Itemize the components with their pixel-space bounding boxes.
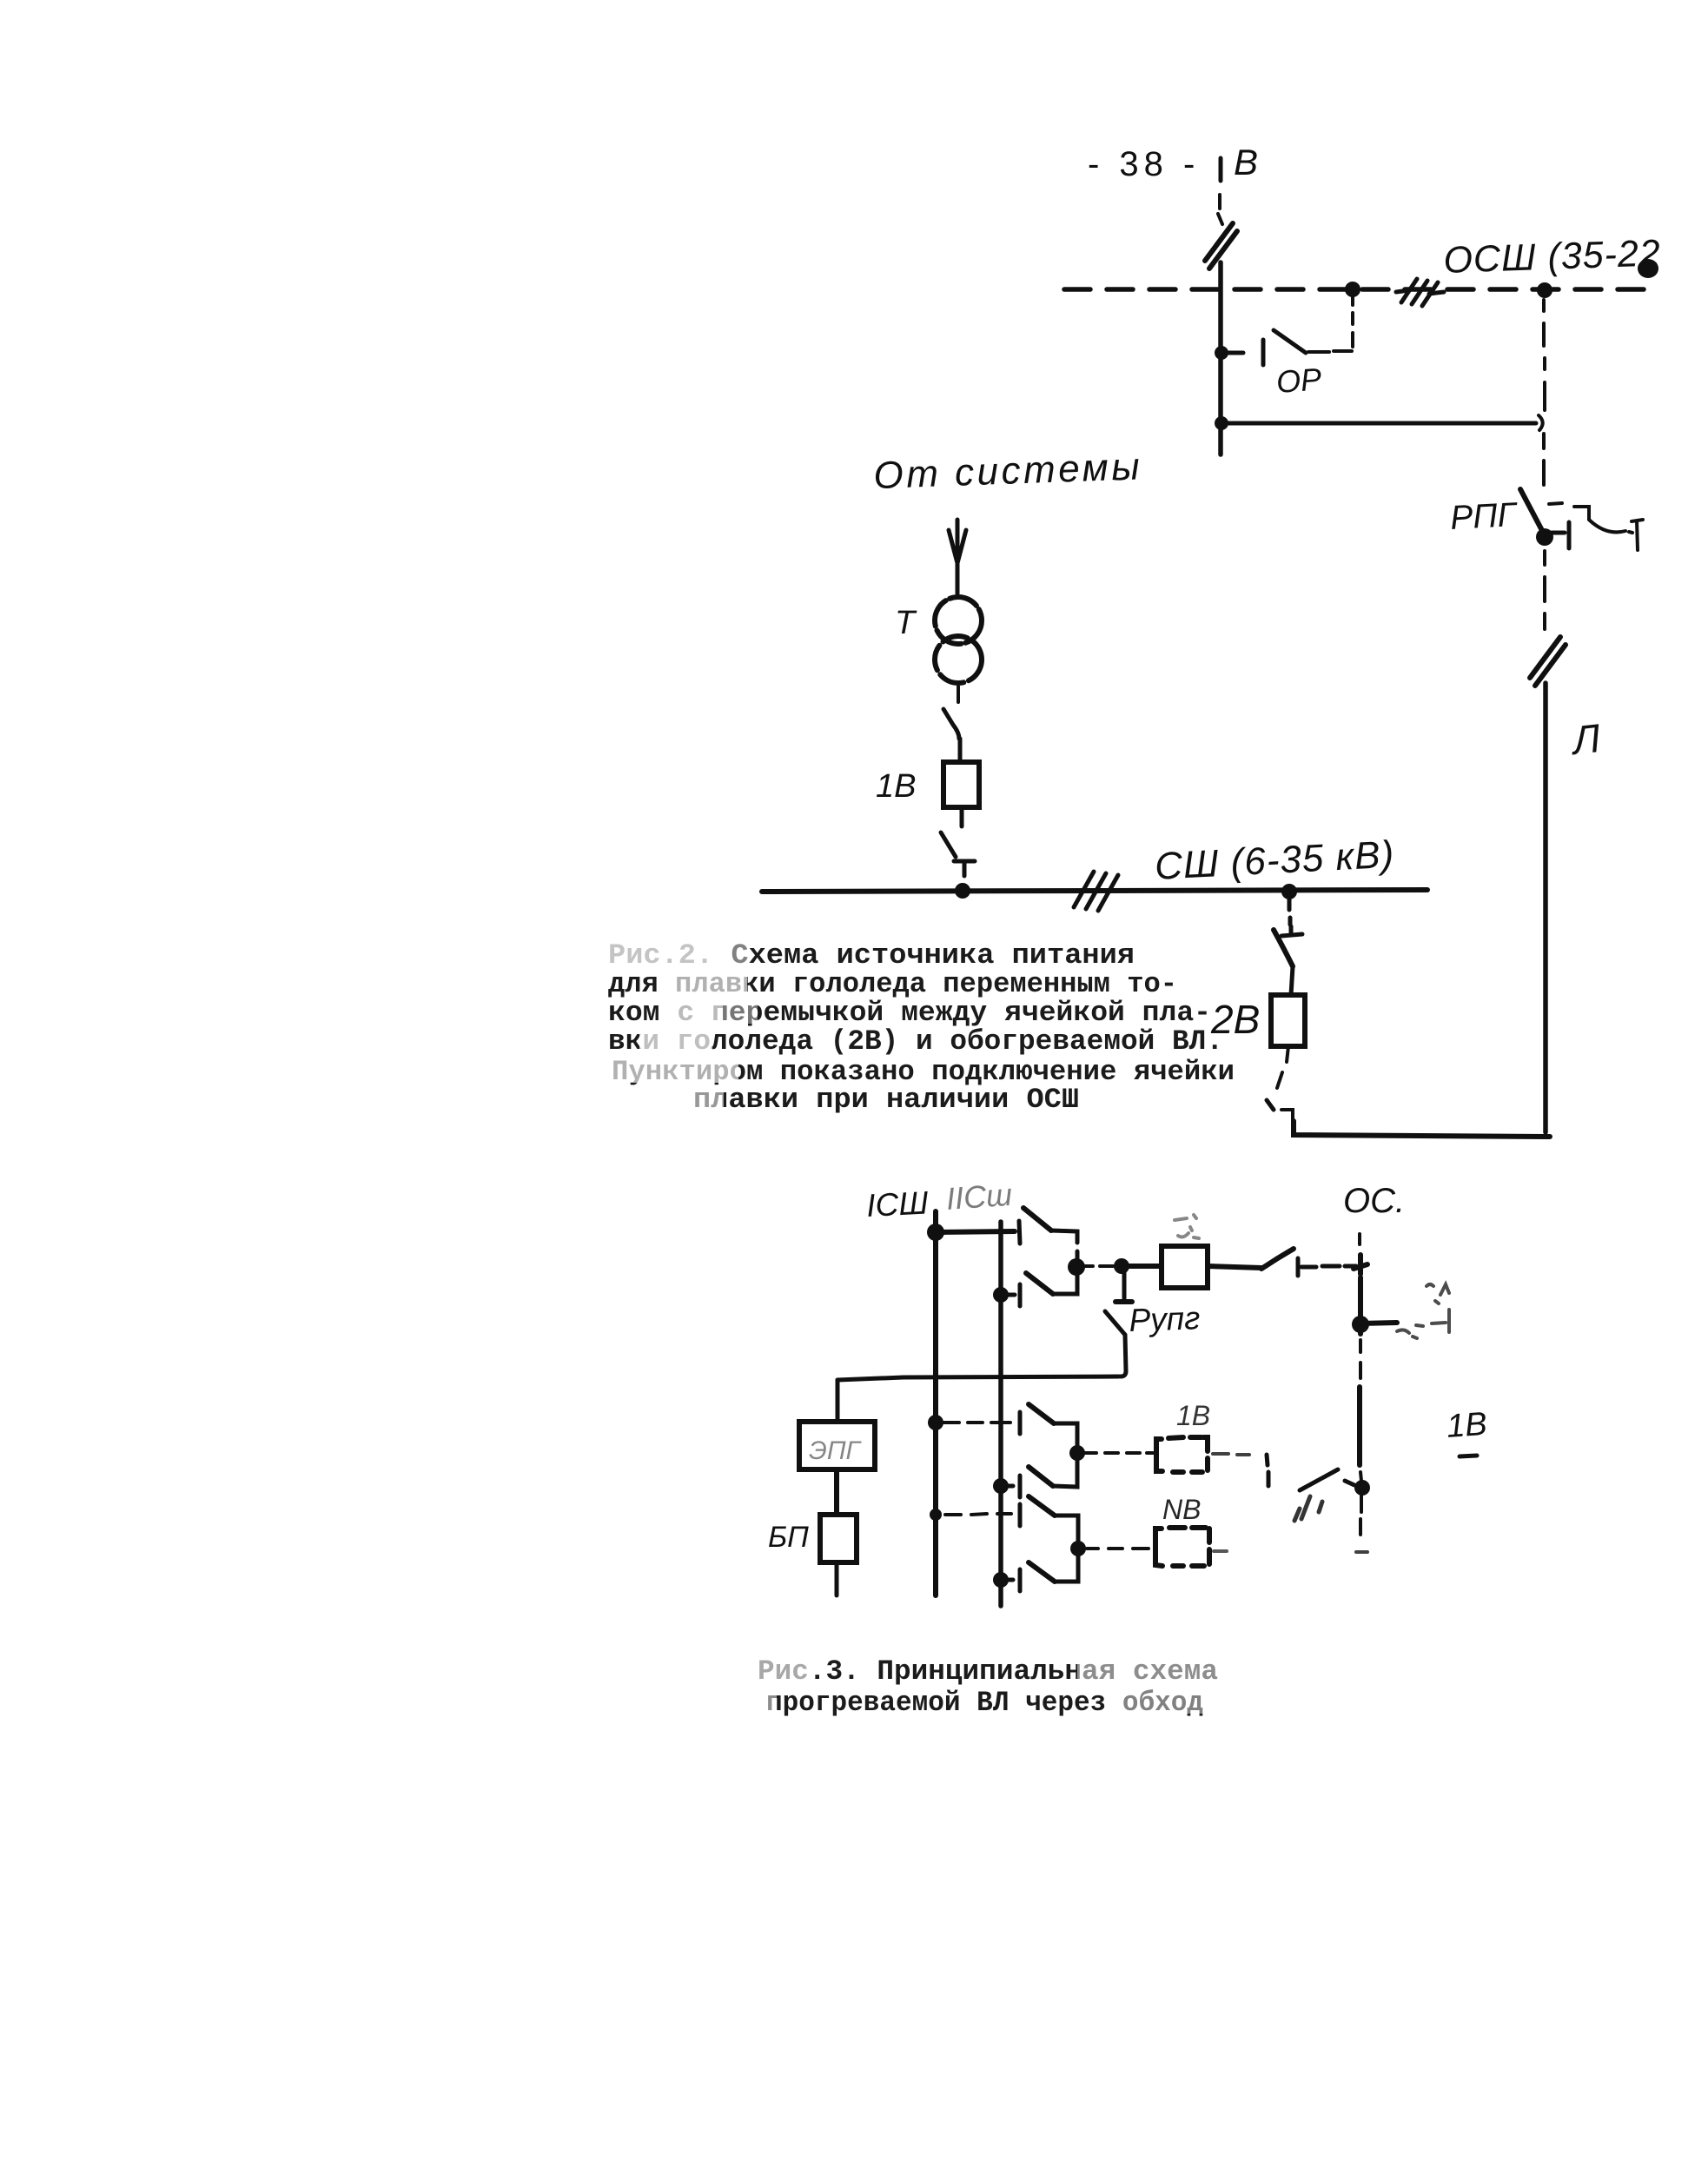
wire link corner down to EPG	[836, 1380, 840, 1422]
svg-text:ОР: ОР	[1275, 361, 1323, 400]
node junction dot RUPG tap	[1114, 1258, 1129, 1274]
block BP box	[820, 1515, 857, 1562]
wire OS line upper segment	[1358, 1277, 1363, 1334]
disconnector S1 blade	[1023, 1208, 1051, 1230]
wire hook to bottom corner	[1281, 1110, 1293, 1121]
wire bus II to contact S6	[1001, 1578, 1013, 1582]
disconnector 1L blade	[1300, 1469, 1354, 1490]
svg-text:РПГ: РПГ	[1449, 496, 1519, 537]
node junction dot bus I row NB	[930, 1509, 942, 1521]
svg-text:В: В	[1234, 142, 1258, 182]
disconnector S4 blade	[1029, 1467, 1053, 1486]
svg-text:1В: 1В	[1176, 1400, 1210, 1431]
caption 2 fade washes	[754, 1656, 1221, 1714]
fixed contact RUPG	[1115, 1299, 1132, 1304]
svg-text:1В: 1В	[876, 768, 916, 805]
node junction dot bus SSH right	[1281, 884, 1297, 899]
arrowhead feeder	[949, 530, 966, 563]
disconnector blade to OS	[1261, 1249, 1294, 1269]
disconnector S2 blade	[1026, 1273, 1053, 1294]
svg-text:IСШ: IСШ	[865, 1184, 930, 1224]
wire dashes under fuse 2B	[1277, 1046, 1288, 1088]
disconnector RPG blade	[1520, 489, 1546, 539]
wire EPG to BP	[834, 1469, 839, 1515]
wire below BP	[835, 1562, 839, 1595]
fuse 1B feeder box	[1156, 1437, 1208, 1472]
svg-text:ОСШ (35-22: ОСШ (35-22	[1443, 232, 1662, 282]
wire bus II to contact S2	[1001, 1293, 1015, 1297]
wire node B vertical main	[1218, 262, 1223, 454]
label 2G smudge	[1175, 1215, 1199, 1238]
wire S4 to column 1B	[1053, 1453, 1077, 1487]
svg-text:Л: Л	[1568, 715, 1603, 763]
node junction dot OS tap	[1352, 1316, 1369, 1333]
wire dash right of NB box	[1214, 1549, 1227, 1553]
wire OS line dashes	[1359, 1340, 1362, 1378]
wire OS tap right	[1360, 1323, 1397, 1323]
node junction dot bus II S4	[993, 1478, 1009, 1494]
node OS tee	[1354, 1255, 1367, 1274]
fuse 1B box	[943, 762, 979, 807]
node junction dot column 1B	[1069, 1445, 1085, 1461]
breaker double slash on L line	[1530, 637, 1566, 686]
wire dashed to fuse NB feeder	[1087, 1547, 1149, 1550]
wire S2 to common column	[1053, 1267, 1077, 1294]
wire OS line top dash	[1358, 1234, 1361, 1244]
svg-text:плавки при наличии ОСШ: плавки при наличии ОСШ	[693, 1084, 1079, 1116]
svg-text:IIСш: IIСш	[945, 1177, 1014, 1217]
svg-text:От системы: От системы	[873, 445, 1143, 497]
disconnector blade above fuse 2B	[1274, 930, 1293, 966]
fixed contact T of 2B switch	[1281, 926, 1302, 936]
disconnector blade to bus SSH	[941, 832, 956, 857]
wire contact to OS line	[1301, 1266, 1356, 1267]
node junction dot common column	[1068, 1258, 1085, 1276]
svg-text:NВ: NВ	[1162, 1494, 1201, 1525]
node junction dot column NB	[1070, 1541, 1086, 1556]
wire into fuse 2B	[1291, 966, 1293, 995]
wire dashed bus I to contact S3	[943, 1421, 1010, 1424]
wire dashed to fuse 1B feeder	[1085, 1451, 1153, 1455]
fixed contact 1L	[1267, 1455, 1268, 1486]
svg-text:- 38 -: - 38 -	[1088, 145, 1200, 183]
wire OS line mid segment	[1357, 1387, 1362, 1465]
wire dashed corner OR branch	[1334, 297, 1353, 351]
bus OSSH dashed 35-220	[1064, 287, 1651, 292]
earth tick end of RPG branch	[1632, 520, 1643, 550]
caption 1 fade washes	[604, 940, 758, 1111]
node junction dot OR on line B	[1215, 346, 1228, 360]
svg-text:СШ (6-35 кВ): СШ (6-35 кВ)	[1154, 833, 1395, 888]
svg-text:Т: Т	[895, 605, 917, 641]
wire RPG bracket and curve to earth tick	[1574, 507, 1632, 533]
wire stub under dot 2B branch	[1289, 892, 1290, 925]
disconnector blade below 2B	[1267, 1100, 1274, 1110]
bus I SSH vertical	[933, 1211, 938, 1595]
blob on label 0	[1638, 259, 1658, 278]
wire dashed RPG column upper	[1544, 300, 1545, 410]
wire node B vertical top dash	[1219, 158, 1223, 181]
svg-text:ОС.: ОС.	[1343, 1182, 1405, 1220]
node junction dot RPG	[1536, 528, 1553, 546]
wire RUPG down to long link	[1121, 1335, 1126, 1376]
wire OS dash	[1360, 1472, 1361, 1481]
disconnector S5 blade	[1029, 1496, 1055, 1516]
node junction dot OS 1L	[1354, 1480, 1370, 1496]
block EPG box	[799, 1422, 875, 1469]
wire bottom loop horizontal	[1294, 1121, 1550, 1137]
disconnector RUPG blade	[1105, 1311, 1125, 1335]
wire horizontal link to RPG column	[1221, 421, 1536, 426]
connector open circle at RPG column	[1539, 415, 1543, 430]
wire OR to dashed corner	[1308, 350, 1329, 354]
line break mark on bus OSSH	[1396, 279, 1444, 306]
fixed contact S1	[1019, 1221, 1020, 1244]
wire S1 to common column	[1051, 1230, 1077, 1262]
wire bus II to contact S4	[1001, 1484, 1013, 1489]
wire OR stub	[1221, 351, 1243, 355]
label 1L smudge	[1294, 1496, 1322, 1521]
wire long horizontal link	[837, 1376, 1119, 1380]
node junction dot on OSSH (OR branch)	[1345, 282, 1360, 297]
smudge label 2L	[1397, 1284, 1449, 1338]
disconnector S3 blade	[1029, 1404, 1054, 1423]
wire RPG small dashes above contact	[1549, 503, 1562, 504]
node junction dot bus I fuse row	[928, 1415, 943, 1430]
wire dashed bus I to contact S5	[945, 1514, 1011, 1515]
wire OS line below 1L	[1360, 1493, 1361, 1535]
disconnector S6 blade	[1029, 1562, 1055, 1582]
wire OS end dash	[1356, 1550, 1367, 1554]
fixed contact T above bus	[954, 861, 975, 876]
node junction dot line487	[1215, 416, 1228, 430]
svg-text:Рупг: Рупг	[1129, 1300, 1201, 1338]
wire dashed from common dot to RUPG node	[1083, 1264, 1113, 1268]
node junction dot bus II S2	[993, 1287, 1009, 1303]
svg-text:БП: БП	[768, 1521, 809, 1554]
wire incoming feeder	[956, 520, 960, 594]
disconnector blade above fuse 1B	[943, 709, 959, 739]
fuse 2B box	[1271, 995, 1305, 1046]
dash under 1B right	[1460, 1456, 1477, 1456]
disconnector OR fixed contact	[1261, 340, 1266, 365]
wire RUPG stem	[1122, 1266, 1127, 1298]
fixed contact S3	[1018, 1412, 1023, 1434]
wire L vertical solid	[1543, 683, 1548, 1132]
bus SSH 6-35kV	[762, 890, 1427, 892]
wire dashed from fuse 1B to 1L contact	[1213, 1454, 1249, 1455]
fixed contact S4	[1018, 1476, 1023, 1497]
wire dashed RPG column below circle	[1542, 434, 1546, 485]
wire into fuse 1B	[958, 739, 963, 762]
node junction dot bus I top	[927, 1224, 944, 1241]
wire dashed below RPG	[1543, 551, 1546, 629]
wire S5 to column NB	[1055, 1516, 1078, 1543]
fixed contact S5	[1018, 1504, 1023, 1526]
fixed contact S6	[1018, 1569, 1023, 1591]
wire dash under fuse 1B	[960, 807, 964, 826]
fixed contact S2	[1018, 1284, 1023, 1306]
bus II SSH vertical	[998, 1222, 1003, 1606]
wire S3 to column 1B	[1054, 1423, 1077, 1448]
wire fuse 2G to OS switch	[1208, 1266, 1261, 1268]
breaker double slash on line B	[1205, 223, 1237, 269]
line break mark on bus SSH	[1074, 872, 1118, 911]
node junction dot bus SSH left	[955, 883, 970, 899]
node junction dot on OSSH (RPG branch)	[1537, 282, 1552, 298]
fuse 2G box	[1162, 1246, 1208, 1288]
svg-text:ЭПГ: ЭПГ	[809, 1436, 863, 1465]
wire dash under transformer	[957, 687, 960, 702]
wire bus I to contact S1	[936, 1231, 1015, 1232]
fuse NB feeder box	[1155, 1528, 1209, 1566]
wire node B dash-dot	[1218, 195, 1222, 224]
wire S6 to column NB	[1055, 1549, 1078, 1582]
transformer T winding 2	[935, 636, 982, 683]
fixed contact OS switch	[1296, 1258, 1301, 1276]
wire RUPG tap to fuse 2G	[1122, 1264, 1159, 1269]
disconnector OR blade	[1274, 330, 1306, 353]
svg-text:1В: 1В	[1446, 1406, 1488, 1445]
node junction dot bus II S6	[993, 1572, 1009, 1588]
transformer T winding 1	[935, 597, 982, 644]
disconnector RPG fixed contact right	[1552, 522, 1569, 548]
